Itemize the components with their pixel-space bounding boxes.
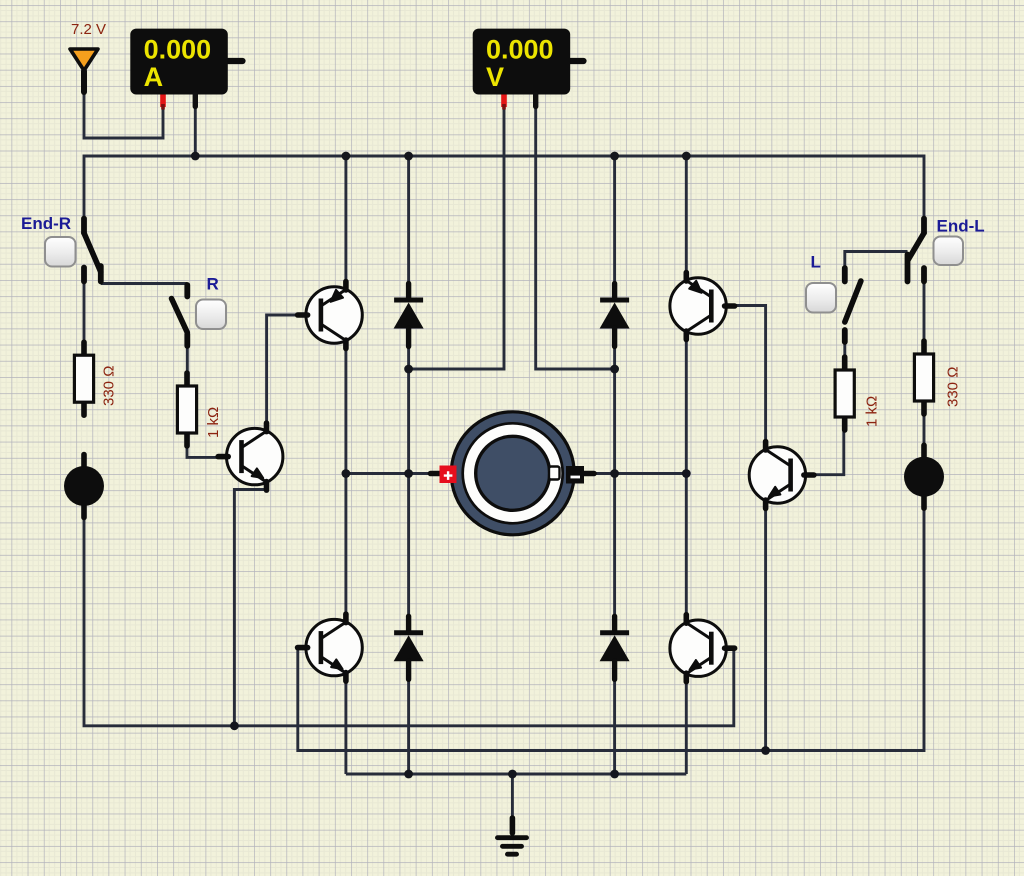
wire ammeter black pin to top rail <box>194 108 197 156</box>
voltage source 7.2V <box>70 49 98 92</box>
transistor Q6 bottom-right NPN <box>670 615 735 682</box>
wire ground bus <box>346 773 686 776</box>
wire switch L bottom to resistor 1k right <box>843 344 846 359</box>
voltmeter <box>473 29 584 110</box>
wire Q5 emitter to ground bus <box>344 680 347 774</box>
svg-text:0.000: 0.000 <box>486 35 554 65</box>
switch R <box>172 285 188 346</box>
resistor 1k right <box>835 357 854 430</box>
wire ground stem <box>511 774 514 820</box>
svg-text:V: V <box>486 62 504 92</box>
button End-L <box>934 237 964 266</box>
node motor rail D1 column <box>404 469 413 478</box>
node rail-D2 <box>610 152 619 161</box>
transistor Q1 top-left PNP <box>298 282 363 349</box>
wire resistor 1k left to Q3 base <box>187 441 220 457</box>
button End-R <box>45 237 76 267</box>
wire voltmeter red pin down to node <box>409 108 504 369</box>
wire Q4 base to resistor 1k right <box>805 430 844 475</box>
node bus A Q3 emitter <box>230 721 239 730</box>
ammeter <box>130 29 242 110</box>
wire rail to diode D1 <box>407 156 410 284</box>
wire Q3 emitter to bus A <box>234 490 266 726</box>
node motor rail Q1 column <box>342 469 351 478</box>
wire voltmeter black pin down to node <box>536 108 615 369</box>
diode D3 bottom-left <box>394 616 424 679</box>
svg-text:7.2 V: 7.2 V <box>71 21 106 38</box>
wire rail to Q2 emitter <box>685 156 688 274</box>
node rail-ammeter <box>191 152 200 161</box>
wire Q4 emitter to bus B <box>764 506 767 751</box>
wire lamp left to lower bus A to Q6 base <box>84 505 734 726</box>
node ground bus D3 <box>404 770 413 779</box>
diode D2 top-right <box>600 284 630 347</box>
wire top rail <box>84 156 924 219</box>
motor M1 <box>431 412 595 535</box>
transistor Q4 mid-right NPN <box>749 442 814 509</box>
node rail-Q2 <box>682 152 691 161</box>
wire Q6 emitter to ground bus <box>685 681 688 774</box>
wire motor rail left <box>346 472 432 475</box>
switch L <box>845 268 861 342</box>
button R <box>196 300 226 330</box>
diode D1 top-left <box>394 284 424 347</box>
node voltmeter red tap <box>404 365 413 374</box>
svg-text:330 Ω: 330 Ω <box>101 366 118 406</box>
svg-text:R: R <box>207 275 219 294</box>
wire rail to Q1 emitter <box>344 156 347 283</box>
svg-text:L: L <box>811 253 821 272</box>
node motor rail D2 column <box>610 469 619 478</box>
wire power source to ammeter red pin <box>84 92 163 138</box>
lamp left <box>64 455 104 518</box>
ground <box>498 818 527 854</box>
lamp right <box>904 445 944 508</box>
node bus B Q4 emitter <box>761 746 770 755</box>
wire End-L bottom pin to resistor 330 right <box>923 284 926 344</box>
node motor rail Q2 column <box>682 469 691 478</box>
wire switch L top to End-L lever <box>845 252 908 267</box>
node rail-D1 <box>404 152 413 161</box>
wire D2 through motor rail to diode D4 <box>613 345 616 615</box>
diode D4 bottom-right <box>600 616 630 679</box>
wire Q1 base to Q3 collector <box>267 315 300 426</box>
wire lamp right to lower bus B to Q5 base <box>298 496 924 751</box>
switch End-R <box>84 219 101 282</box>
resistor 1k left <box>177 373 196 446</box>
wire Q2 collector down to Q6 collector <box>685 338 688 616</box>
wire resistor 330 right to lamp right <box>923 416 926 445</box>
transistor Q5 bottom-left NPN <box>298 614 363 681</box>
svg-text:1 kΩ: 1 kΩ <box>864 396 881 427</box>
wire switch R bottom to resistor 1k <box>186 348 189 376</box>
svg-text:330 Ω: 330 Ω <box>945 367 962 407</box>
resistor 330 left <box>74 342 93 415</box>
wire End-R lever to switch R top pin <box>101 282 188 285</box>
node voltmeter black tap <box>610 365 619 374</box>
svg-text:0.000: 0.000 <box>144 35 212 65</box>
wire D4 to ground bus <box>613 679 616 774</box>
switch End-L <box>908 219 925 282</box>
wire motor rail right <box>592 472 686 475</box>
transistor Q2 top-right PNP <box>670 273 735 340</box>
wire Q1 collector down to Q5 collector <box>344 347 347 616</box>
resistor 330 right <box>914 341 933 414</box>
wire Q2 base to Q4 collector <box>724 306 766 446</box>
svg-text:A: A <box>144 62 164 92</box>
svg-text:1 kΩ: 1 kΩ <box>205 407 222 438</box>
wire D3 to ground bus <box>407 679 410 774</box>
node rail-Q1 <box>342 152 351 161</box>
svg-text:End-L: End-L <box>937 217 985 236</box>
wire rail to diode D2 <box>613 156 616 284</box>
node ground bus stem <box>508 770 517 779</box>
node ground bus D4 <box>610 770 619 779</box>
transistor Q3 mid-left NPN <box>218 423 283 490</box>
button L <box>806 283 836 313</box>
svg-text:End-R: End-R <box>21 214 71 233</box>
wire D1 through motor rail to diode D3 <box>407 345 410 615</box>
wire End-R bottom pin to resistor 330 <box>83 284 86 345</box>
